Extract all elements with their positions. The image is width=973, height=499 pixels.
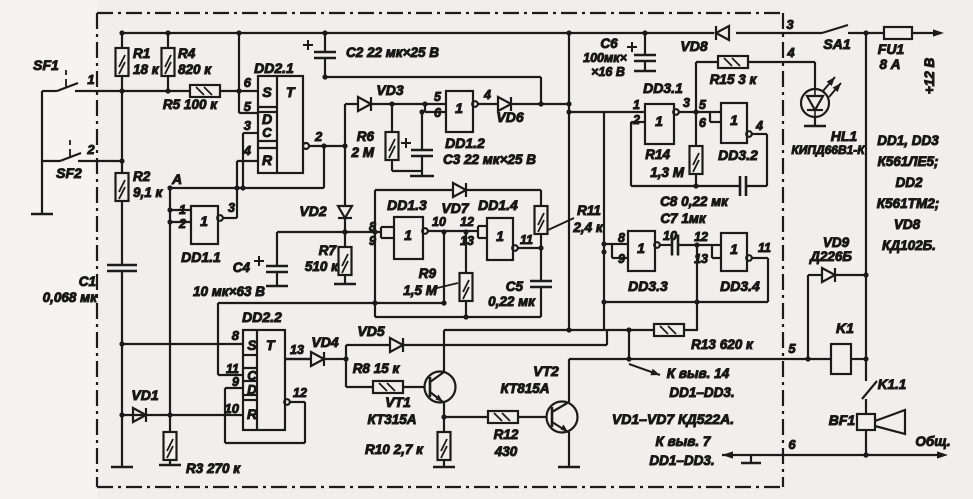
svg-text:C3 22 мк×25 В: C3 22 мк×25 В [443,152,536,167]
svg-text:2: 2 [314,129,323,144]
svg-text:1: 1 [496,228,504,244]
svg-text:9: 9 [232,375,239,389]
svg-text:4: 4 [483,88,491,102]
svg-text:5: 5 [788,341,796,356]
svg-text:9: 9 [369,234,376,248]
svg-text:VD8: VD8 [680,38,707,54]
svg-text:3: 3 [786,17,794,32]
svg-text:C: C [247,368,257,383]
svg-text:9,1 к: 9,1 к [133,185,164,200]
svg-text:8: 8 [369,220,376,234]
svg-text:VD1–VD7 КД522А.: VD1–VD7 КД522А. [612,411,734,427]
svg-text:4: 4 [243,143,252,158]
svg-text:SF2: SF2 [56,165,82,181]
svg-text:R8 15 к: R8 15 к [353,361,401,376]
svg-text:VD4: VD4 [311,334,338,350]
svg-text:FU1: FU1 [878,41,905,57]
svg-text:C7 1мк: C7 1мк [660,211,707,226]
svg-text:1: 1 [655,113,663,129]
svg-text:2: 2 [632,113,640,127]
svg-text:0,22 мк: 0,22 мк [488,294,536,309]
svg-text:DD1–DD3.: DD1–DD3. [669,385,734,400]
svg-text:K1: K1 [836,320,854,336]
svg-text:12: 12 [460,215,474,229]
svg-text:3: 3 [228,201,235,215]
svg-text:11: 11 [758,241,771,255]
svg-text:1: 1 [179,203,186,217]
svg-text:2,4 к: 2,4 к [572,220,604,235]
svg-text:DD2.1: DD2.1 [254,60,294,76]
svg-text:C2 22 мк×25 В: C2 22 мк×25 В [346,45,439,60]
svg-text:1: 1 [730,241,738,257]
svg-text:1: 1 [200,213,208,229]
svg-text:1: 1 [633,98,640,112]
svg-text:S: S [247,337,257,353]
svg-text:6: 6 [788,437,796,452]
svg-text:SF1: SF1 [33,57,59,73]
svg-text:VD2: VD2 [299,203,326,219]
svg-text:5: 5 [434,90,442,104]
svg-text:R1: R1 [133,46,150,61]
svg-text:1: 1 [87,72,94,87]
svg-text:2: 2 [178,217,186,231]
svg-text:VD6: VD6 [496,109,523,125]
svg-text:5: 5 [244,99,252,114]
svg-text:DD1.2: DD1.2 [445,135,485,151]
svg-text:R12: R12 [494,427,519,442]
svg-text:C1: C1 [79,274,96,289]
svg-text:10 мк×63 В: 10 мк×63 В [193,284,265,299]
svg-text:DD1.3: DD1.3 [387,197,427,213]
svg-text:430: 430 [494,444,518,459]
svg-text:6: 6 [434,106,442,120]
svg-text:VD9: VD9 [823,235,850,250]
svg-text:DD3.1: DD3.1 [643,80,683,96]
svg-text:10: 10 [225,401,240,416]
svg-text:VD3: VD3 [376,82,403,98]
svg-text:R14: R14 [645,147,670,162]
svg-text:С5: С5 [506,279,524,294]
svg-text:DD3.4: DD3.4 [720,278,760,294]
svg-text:К выв. 14: К выв. 14 [667,366,730,381]
svg-text:R2: R2 [133,169,151,184]
svg-text:510 к: 510 к [305,259,339,274]
svg-text:1,3 М: 1,3 М [650,165,685,180]
svg-text:+12 В: +12 В [922,58,937,95]
svg-text:0,068 мк: 0,068 мк [43,290,99,305]
svg-text:2 М: 2 М [350,145,374,160]
svg-text:DD1, DD3: DD1, DD3 [877,133,939,148]
svg-text:DD2.2: DD2.2 [242,309,282,325]
svg-text:1: 1 [637,240,645,256]
svg-text:4: 4 [755,119,763,133]
svg-text:SA1: SA1 [823,36,850,52]
svg-text:3: 3 [683,96,690,110]
svg-text:C6: C6 [600,36,618,51]
svg-text:VT2: VT2 [533,363,559,379]
svg-text:BF1: BF1 [829,412,856,428]
svg-text:R13 620 к: R13 620 к [691,337,754,352]
svg-text:C8 0,22 мк: C8 0,22 мк [660,194,729,209]
svg-text:КТ315А: КТ315А [368,412,417,427]
svg-text:VD5: VD5 [357,323,384,339]
svg-text:VD1: VD1 [131,387,158,403]
svg-text:R9: R9 [419,266,437,281]
svg-text:12: 12 [293,386,307,400]
svg-text:R6: R6 [357,129,375,144]
svg-text:2: 2 [86,142,95,157]
svg-text:DD1.4: DD1.4 [478,197,518,213]
svg-text:T: T [286,84,296,100]
svg-text:VD8: VD8 [894,217,921,232]
svg-text:К561ТМ2;: К561ТМ2; [877,196,939,211]
svg-text:8 А: 8 А [879,57,900,72]
svg-text:8: 8 [232,328,240,343]
svg-text:11: 11 [520,233,533,247]
svg-text:DD2: DD2 [895,175,922,190]
svg-text:12: 12 [694,230,708,244]
svg-text:VD7: VD7 [441,200,469,216]
svg-text:3: 3 [244,118,252,133]
svg-text:C: C [262,125,272,140]
svg-text:10: 10 [432,215,446,229]
svg-text:DD3.2: DD3.2 [718,147,758,163]
svg-text:R10 2,7 к: R10 2,7 к [365,442,424,457]
svg-text:820 к: 820 к [178,62,212,77]
svg-text:5: 5 [699,98,707,112]
svg-text:9: 9 [618,252,625,266]
svg-text:6: 6 [699,116,707,130]
svg-text:КИПД66В1-К: КИПД66В1-К [791,143,866,157]
svg-text:R11: R11 [577,203,601,218]
svg-text:18 к: 18 к [133,62,160,77]
svg-text:4: 4 [786,45,795,60]
svg-text:T: T [266,337,276,353]
svg-text:100мк×: 100мк× [583,51,627,65]
svg-text:D: D [247,382,257,397]
svg-text:КД102Б.: КД102Б. [882,238,936,253]
svg-text:R: R [262,152,273,168]
svg-text:Общ.: Общ. [915,434,950,449]
svg-text:R: R [247,406,258,422]
svg-text:S: S [262,84,272,100]
svg-text:13: 13 [290,343,304,357]
svg-text:R5 100 к: R5 100 к [163,97,218,112]
svg-text:×16 В: ×16 В [591,65,625,79]
svg-text:11: 11 [226,362,239,376]
svg-text:1: 1 [404,227,412,243]
svg-text:DD1.1: DD1.1 [181,249,221,265]
svg-text:1: 1 [455,100,463,116]
svg-text:6: 6 [244,75,252,90]
svg-text:1: 1 [730,112,738,128]
svg-text:R15 3 к: R15 3 к [710,72,758,87]
svg-text:R4: R4 [178,46,196,61]
svg-text:КТ815А: КТ815А [501,381,550,396]
svg-text:A: A [171,171,182,187]
svg-text:DD1–DD3.: DD1–DD3. [649,453,714,468]
svg-text:R3 270 к: R3 270 к [186,461,241,476]
svg-text:1,5 М: 1,5 М [403,283,438,298]
svg-text:R7: R7 [319,243,338,258]
svg-text:HL1: HL1 [831,128,858,144]
svg-text:C4: C4 [233,260,251,275]
svg-text:8: 8 [618,231,625,245]
svg-text:Д226Б: Д226Б [809,249,852,264]
svg-text:VT1: VT1 [385,394,411,410]
svg-text:К561ЛЕ5;: К561ЛЕ5; [877,154,938,169]
svg-text:К выв. 7: К выв. 7 [656,434,712,449]
svg-text:10: 10 [663,229,677,243]
svg-text:DD3.3: DD3.3 [628,278,668,294]
svg-text:K1.1: K1.1 [878,377,907,392]
